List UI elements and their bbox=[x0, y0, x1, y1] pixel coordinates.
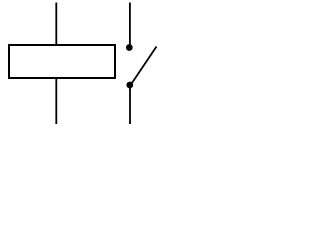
switch blade bbox=[131, 47, 157, 86]
contact terminal dot (upper) bbox=[126, 44, 133, 51]
contact pivot dot (lower) bbox=[126, 82, 133, 89]
wire: contact bottom lead bbox=[129, 85, 131, 124]
wire: contact top lead bbox=[129, 3, 131, 46]
wire: coil top lead bbox=[55, 3, 57, 46]
wire: coil bottom lead bbox=[55, 78, 57, 124]
relay coil (rectangle) bbox=[9, 45, 115, 78]
